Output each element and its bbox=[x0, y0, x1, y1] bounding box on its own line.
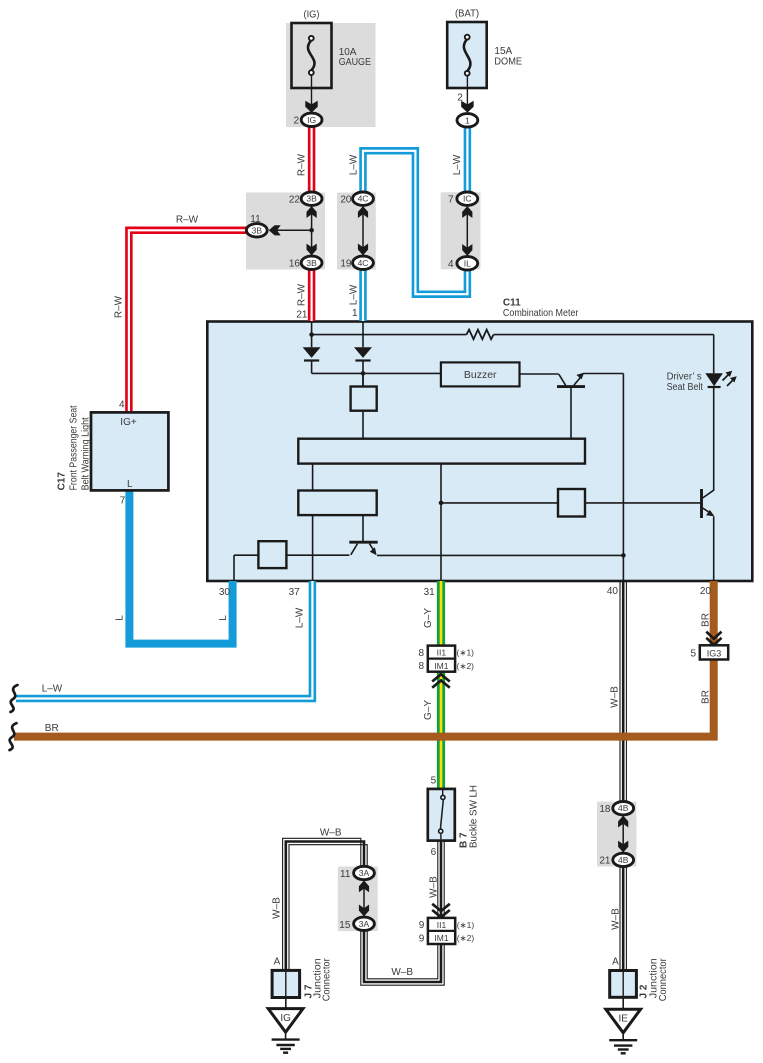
svg-text:IG+: IG+ bbox=[120, 417, 137, 428]
svg-text:A: A bbox=[274, 956, 281, 967]
svg-text:IE: IE bbox=[618, 1014, 628, 1025]
svg-text:W–B: W–B bbox=[272, 897, 283, 919]
svg-text:2: 2 bbox=[457, 92, 463, 103]
svg-text:3B: 3B bbox=[252, 225, 263, 235]
svg-text:IC: IC bbox=[463, 194, 472, 204]
svg-text:4B: 4B bbox=[618, 803, 629, 813]
svg-text:R–W: R–W bbox=[297, 283, 308, 306]
svg-text:A: A bbox=[612, 956, 619, 967]
svg-text:7: 7 bbox=[120, 495, 126, 506]
svg-text:(BAT): (BAT) bbox=[455, 9, 479, 20]
svg-text:BR: BR bbox=[701, 613, 712, 627]
svg-text:4C: 4C bbox=[358, 258, 369, 268]
svg-text:L: L bbox=[127, 479, 133, 490]
svg-text:IM1: IM1 bbox=[434, 661, 448, 671]
svg-text:7: 7 bbox=[448, 195, 454, 206]
svg-text:4B: 4B bbox=[618, 855, 629, 865]
svg-text:30: 30 bbox=[219, 587, 231, 598]
svg-text:Front Passenger Seat: Front Passenger Seat bbox=[69, 405, 80, 490]
svg-text:L: L bbox=[218, 615, 229, 621]
svg-text:31: 31 bbox=[424, 587, 436, 598]
svg-text:3A: 3A bbox=[359, 919, 370, 929]
svg-text:W–B: W–B bbox=[610, 686, 621, 708]
svg-text:IG: IG bbox=[280, 1013, 291, 1024]
svg-text:IL: IL bbox=[464, 258, 471, 268]
svg-text:(∗2): (∗2) bbox=[457, 661, 475, 671]
svg-text:Connector: Connector bbox=[321, 958, 332, 1002]
svg-text:(∗2): (∗2) bbox=[457, 933, 475, 943]
svg-text:8: 8 bbox=[418, 648, 424, 659]
svg-text:IG3: IG3 bbox=[707, 649, 722, 659]
svg-text:W–B: W–B bbox=[610, 908, 621, 930]
svg-text:(IG): (IG) bbox=[304, 10, 320, 21]
svg-text:G–Y: G–Y bbox=[423, 700, 434, 720]
svg-text:(∗1): (∗1) bbox=[457, 920, 475, 930]
svg-text:IM1: IM1 bbox=[434, 933, 448, 943]
svg-text:L–W: L–W bbox=[452, 154, 463, 175]
svg-text:21: 21 bbox=[599, 856, 611, 867]
svg-text:1: 1 bbox=[465, 115, 470, 125]
svg-text:11: 11 bbox=[340, 869, 351, 880]
svg-text:5: 5 bbox=[431, 775, 437, 786]
svg-text:20: 20 bbox=[340, 195, 352, 206]
svg-text:W–B: W–B bbox=[320, 828, 342, 839]
svg-text:9: 9 bbox=[419, 920, 425, 931]
svg-text:W–B: W–B bbox=[391, 967, 413, 978]
svg-text:4: 4 bbox=[119, 400, 125, 411]
svg-text:R–W: R–W bbox=[114, 295, 125, 318]
svg-text:II1: II1 bbox=[437, 920, 447, 930]
svg-text:4C: 4C bbox=[358, 194, 369, 204]
svg-text:3B: 3B bbox=[306, 258, 317, 268]
svg-text:Driver’ s: Driver’ s bbox=[667, 372, 702, 383]
svg-text:4: 4 bbox=[448, 259, 454, 270]
svg-text:Combination Meter: Combination Meter bbox=[503, 308, 579, 319]
svg-text:R–W: R–W bbox=[176, 214, 199, 225]
svg-text:18: 18 bbox=[599, 804, 611, 815]
svg-text:19: 19 bbox=[340, 259, 352, 270]
svg-text:15: 15 bbox=[339, 920, 351, 931]
svg-text:Belt Warning Light: Belt Warning Light bbox=[81, 417, 92, 490]
svg-text:L–W: L–W bbox=[295, 607, 306, 628]
svg-text:11: 11 bbox=[250, 214, 261, 225]
svg-text:22: 22 bbox=[289, 195, 301, 206]
svg-text:37: 37 bbox=[289, 587, 301, 598]
svg-text:3A: 3A bbox=[359, 868, 370, 878]
svg-text:II1: II1 bbox=[437, 648, 447, 658]
svg-text:1: 1 bbox=[352, 308, 358, 319]
svg-text:IG: IG bbox=[307, 115, 316, 125]
svg-text:Seat Belt: Seat Belt bbox=[667, 382, 703, 393]
svg-text:9: 9 bbox=[419, 933, 425, 944]
svg-text:20: 20 bbox=[700, 586, 712, 597]
svg-text:G–Y: G–Y bbox=[423, 608, 434, 628]
svg-text:L: L bbox=[115, 615, 126, 621]
svg-text:6: 6 bbox=[431, 847, 437, 858]
svg-text:2: 2 bbox=[293, 115, 299, 126]
svg-text:DOME: DOME bbox=[494, 56, 522, 67]
svg-text:BR: BR bbox=[45, 723, 59, 734]
svg-text:40: 40 bbox=[607, 586, 619, 597]
svg-text:GAUGE: GAUGE bbox=[339, 57, 371, 68]
svg-text:16: 16 bbox=[289, 259, 301, 270]
svg-text:3B: 3B bbox=[306, 194, 317, 204]
svg-text:W–B: W–B bbox=[428, 876, 439, 898]
svg-text:L–W: L–W bbox=[349, 154, 360, 175]
svg-text:L–W: L–W bbox=[42, 684, 63, 695]
svg-text:Buckle SW LH: Buckle SW LH bbox=[469, 785, 480, 848]
svg-text:BR: BR bbox=[701, 690, 712, 704]
svg-text:Buzzer: Buzzer bbox=[464, 370, 497, 381]
svg-text:21: 21 bbox=[296, 309, 308, 320]
svg-text:R–W: R–W bbox=[297, 153, 308, 176]
svg-text:8: 8 bbox=[418, 661, 424, 672]
svg-text:Connector: Connector bbox=[658, 958, 669, 1002]
svg-text:(∗1): (∗1) bbox=[457, 648, 475, 658]
svg-text:L–W: L–W bbox=[349, 284, 360, 305]
svg-text:C17: C17 bbox=[57, 472, 68, 491]
svg-text:5: 5 bbox=[690, 648, 696, 659]
